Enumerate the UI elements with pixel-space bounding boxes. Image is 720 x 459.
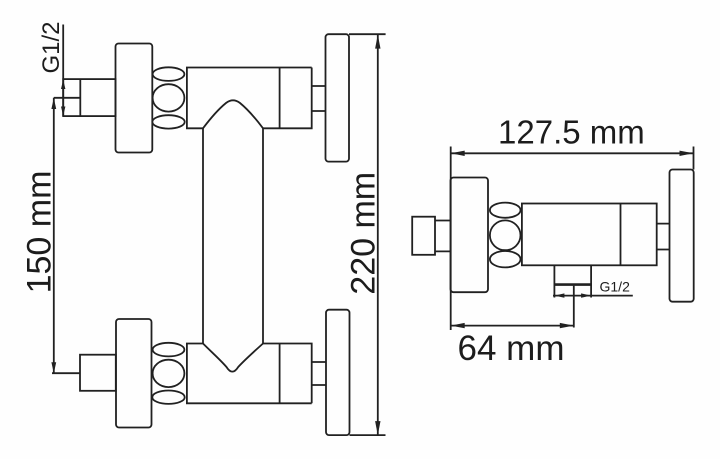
side view: handle stem (435, 221, 451, 252)
side view: nut upper ellipse (490, 203, 521, 218)
front view: top left escutcheon plate (116, 44, 153, 153)
dimension 220 mm: vertical dimension line (377, 35, 379, 436)
arrowhead 220 mm down (375, 421, 380, 435)
dimension 220 mm: bottom extension line (350, 434, 386, 436)
side view: outlet spout bottom edge (554, 283, 592, 286)
svg-text:G1/2: G1/2 (600, 279, 631, 295)
arrowhead 127.5 mm left (451, 151, 465, 156)
dimension 127.5 mm: left extension line (450, 147, 452, 331)
side view: nut lower ellipse (490, 251, 521, 267)
front view: bottom valve body rectangle (187, 344, 312, 404)
arrowhead 220 mm up (375, 35, 380, 49)
dimension 64 mm: right extension line (573, 286, 575, 328)
side view: valve body divider line (620, 204, 622, 266)
dimension 220 mm: top extension line (349, 33, 386, 35)
front view: top nut lower ellipse (152, 115, 184, 128)
front view: top right neck (312, 86, 326, 111)
dimension 150 mm: top pointer line (54, 97, 81, 99)
front view: bottom inlet connector (80, 355, 116, 391)
front view: pointed arch into top body (203, 100, 263, 128)
front view: top nut middle ellipse (153, 84, 185, 111)
arrowhead 64 mm right (560, 323, 574, 328)
dimension G1/2 leader line (front view) (62, 25, 64, 117)
arrowhead 64 mm left (451, 323, 465, 328)
front view: bottom right escutcheon plate (326, 310, 350, 435)
svg-text:127.5 mm: 127.5 mm (498, 114, 645, 151)
front view: bottom right neck (312, 362, 326, 385)
front view: top nut upper ellipse (153, 67, 185, 81)
front view: top valve body rectangle (187, 68, 312, 129)
front view: bottom nut middle ellipse (153, 360, 185, 387)
arrowhead 150 mm up (51, 98, 56, 109)
dimension 127.5 mm: right extension line (693, 147, 695, 170)
side view: handle knob (412, 217, 435, 255)
front view: top valve body divider line (279, 68, 281, 129)
front view: bottom nut lower ellipse (152, 391, 184, 404)
svg-text:64 mm: 64 mm (458, 329, 565, 368)
side view: outlet spout right edge (590, 265, 592, 297)
side view: nut middle ellipse (490, 220, 521, 250)
svg-text:150 mm: 150 mm (21, 171, 59, 294)
front view: top inlet connector (63, 79, 115, 116)
side view: outlet spout left edge (553, 265, 555, 297)
dimension 150 mm: vertical dimension line (53, 98, 55, 373)
front view: top inlet thread divider (79, 79, 81, 116)
arrowhead G1/2 up (61, 80, 65, 89)
arrowhead G1/2 outlet left (554, 293, 564, 297)
arrowhead G1/2 down (61, 107, 65, 116)
arrowhead 150 mm down (51, 362, 56, 373)
dimension 64 mm: horizontal dimension line (451, 325, 574, 327)
front view: bottom valve body divider line (279, 344, 281, 404)
front view: bottom nut upper ellipse (153, 343, 185, 357)
dimension 150 mm: bottom pointer line (52, 372, 80, 374)
side view: valve body rectangle (522, 204, 657, 266)
arrowhead G1/2 outlet right (581, 293, 591, 297)
front view: central vertical body left wall (202, 128, 204, 343)
side view: right escutcheon plate (670, 170, 694, 302)
svg-text:G1/2: G1/2 (38, 21, 65, 73)
dimension 127.5 mm: horizontal dimension line (451, 152, 694, 154)
arrowhead 127.5 mm right (680, 151, 694, 156)
side view: right stem (657, 224, 670, 250)
front view: central vertical body right wall (262, 128, 264, 343)
svg-text:220 mm: 220 mm (345, 172, 383, 295)
front view: V notch into bottom body (203, 344, 263, 372)
front view: top right escutcheon plate (326, 34, 350, 161)
dimension G1/2 outlet: dimension line (553, 295, 633, 297)
side view: left escutcheon plate (451, 178, 489, 293)
front view: bottom left escutcheon plate (116, 319, 152, 428)
